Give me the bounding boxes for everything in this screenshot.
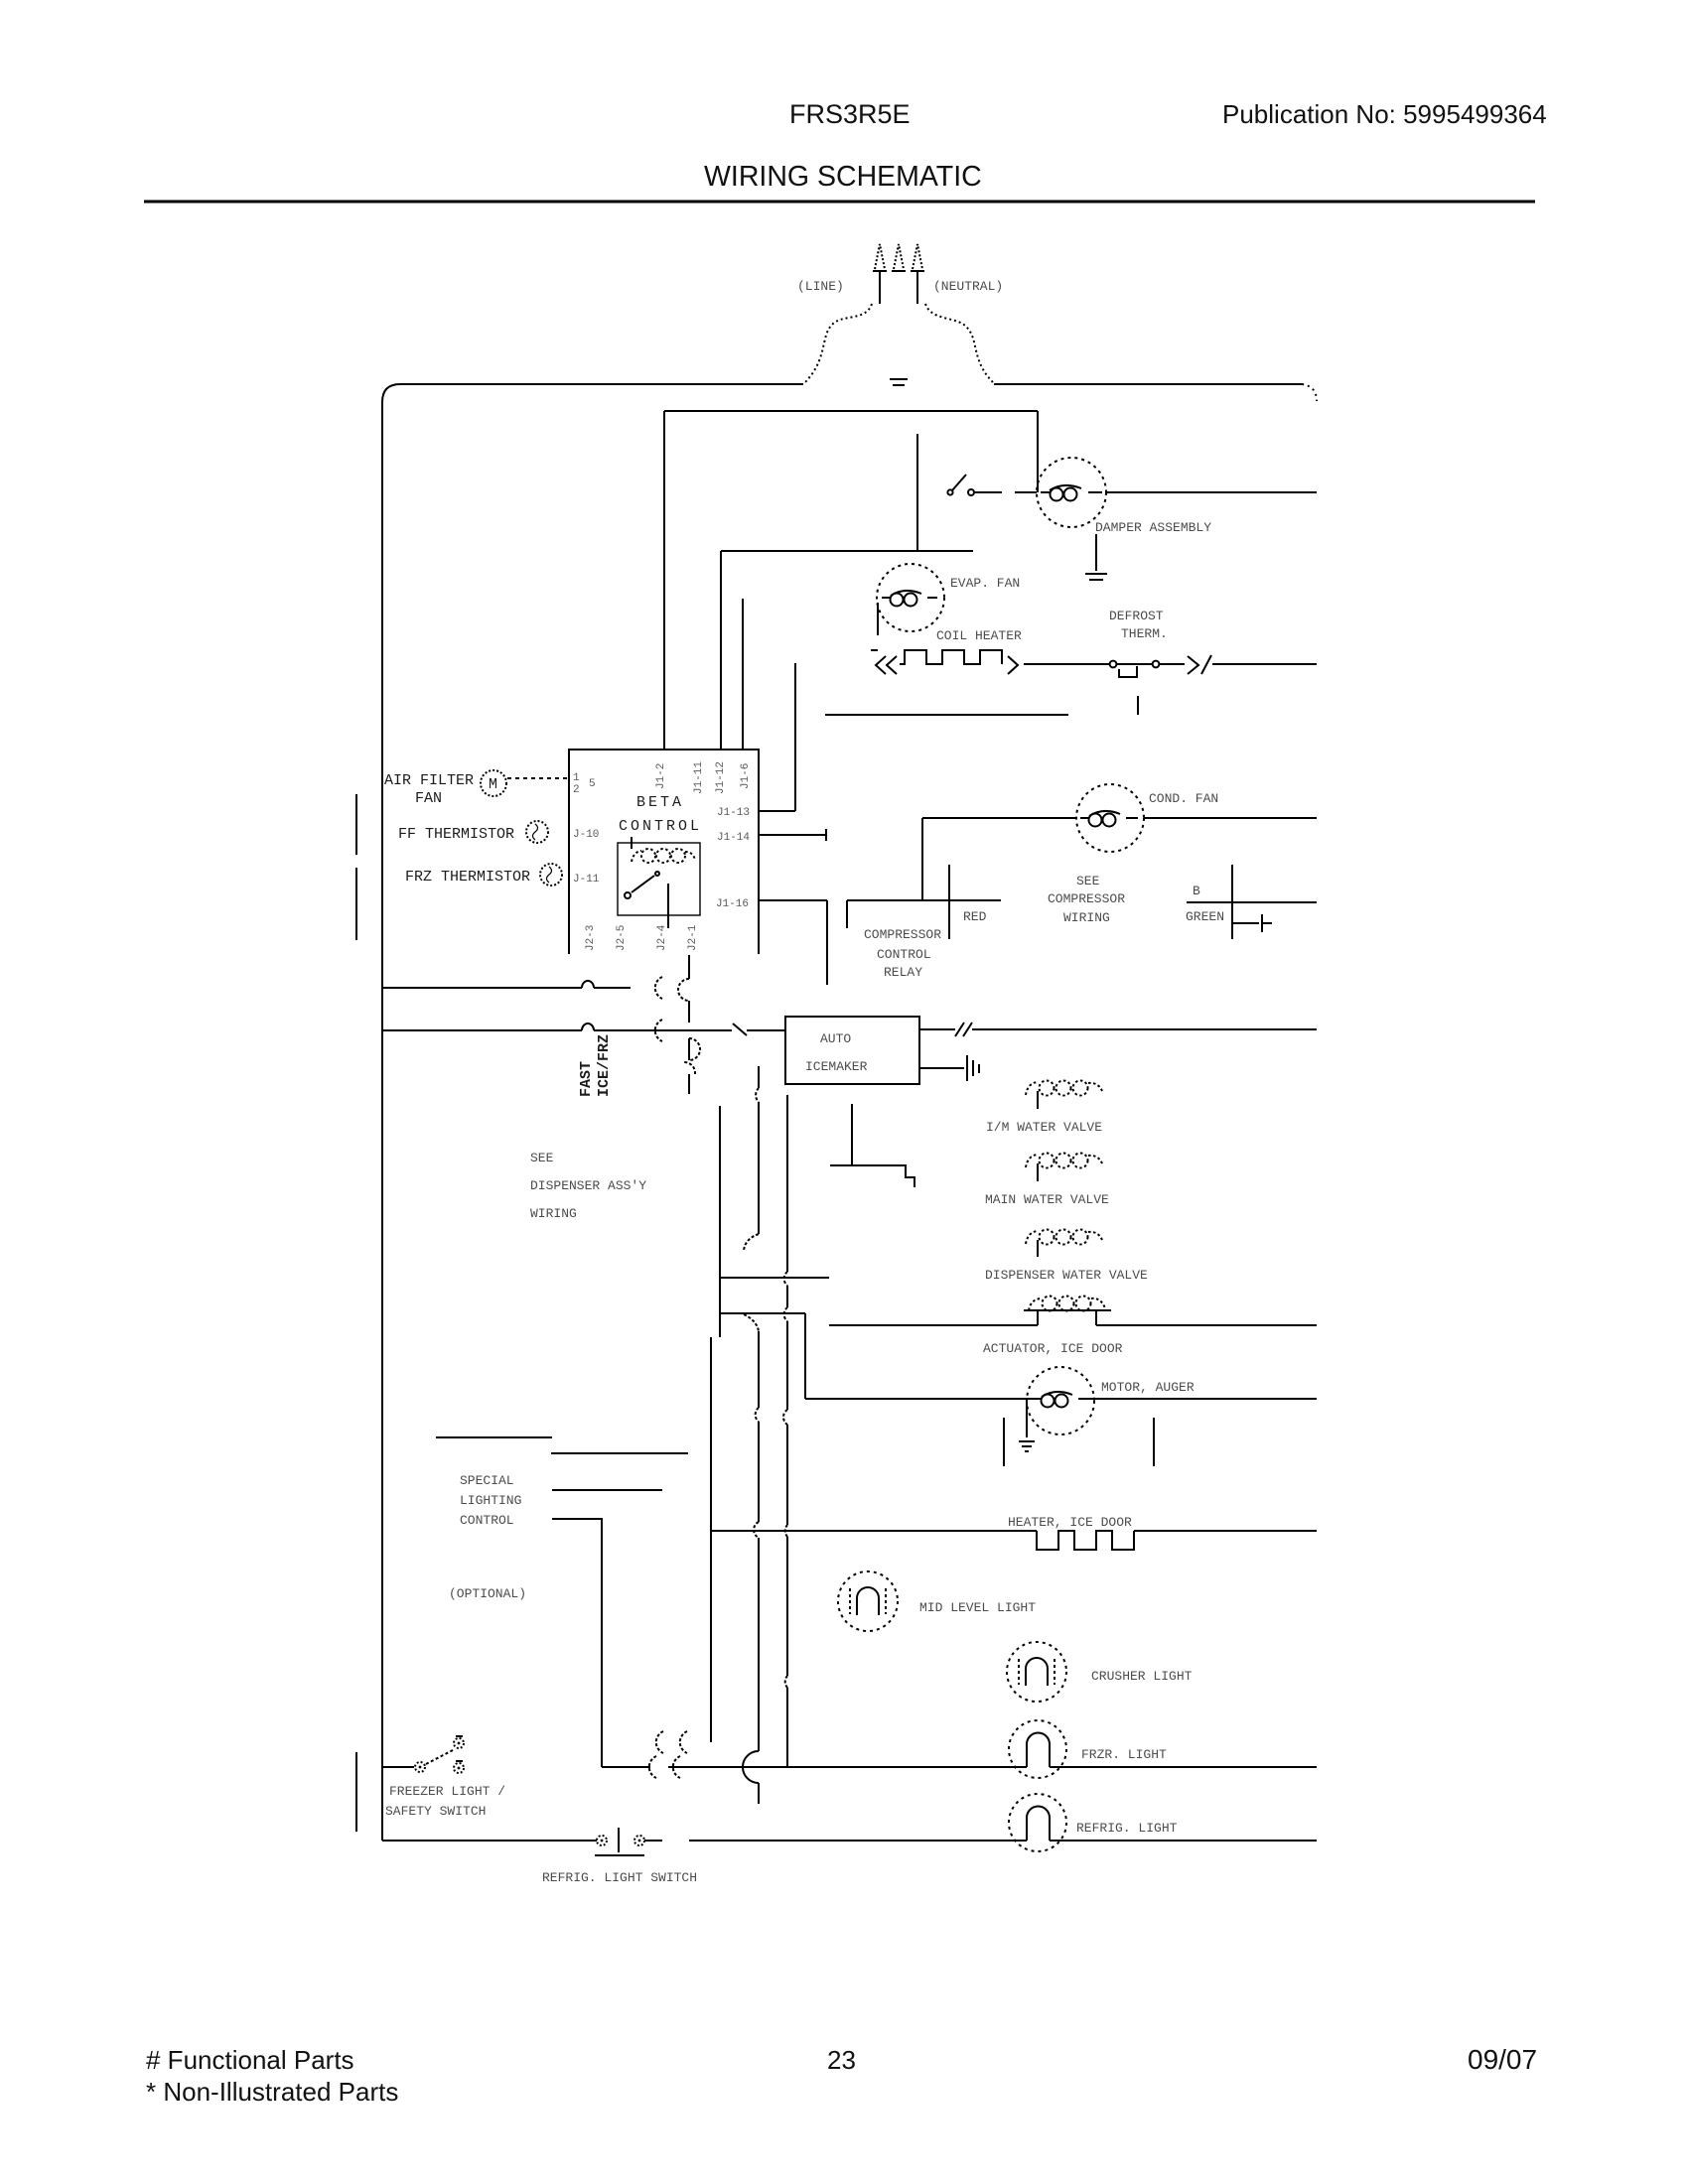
relay actuating line down to pin J2-4 [667,884,669,928]
svg-text:WIRING SCHEMATIC: WIRING SCHEMATIC [704,161,982,193]
defrost thermostat bracket [1119,666,1137,677]
svg-text:I/M WATER VALVE: I/M WATER VALVE [986,1120,1102,1135]
svg-text:MAIN WATER VALVE: MAIN WATER VALVE [985,1192,1109,1207]
svg-text:RED: RED [963,909,987,924]
svg-text:J-10: J-10 [573,829,599,841]
svg-text:J1-16: J1-16 [716,898,749,910]
svg-text:CONTROL: CONTROL [619,818,702,835]
mid level light filament [857,1587,879,1615]
dispenser water valve coil [1026,1230,1102,1245]
compressor stub right [1153,1418,1155,1466]
vertical C detour around frzr wire [743,1751,759,1783]
svg-text:DISPENSER WATER VALVE: DISPENSER WATER VALVE [985,1268,1148,1283]
refrig light bulb circle [1009,1794,1066,1851]
svg-text:5: 5 [589,778,596,790]
icemaker switch blade [733,1024,747,1035]
auto icemaker box [785,1017,919,1084]
svg-text:FRS3R5E: FRS3R5E [789,99,911,129]
coil heater connector chevron right [1008,656,1018,674]
crusher light bulb circle [1007,1642,1066,1702]
svg-text:23: 23 [827,2045,856,2075]
motor auger coil [1035,1398,1086,1400]
svg-text:ICEMAKER: ICEMAKER [805,1059,868,1074]
svg-text:2: 2 [573,784,580,796]
branch wire lower (to motor auger riser) [720,1312,805,1314]
red lead crossing [948,865,950,939]
title rule [144,201,1535,204]
refrig switch plunger [618,1828,620,1852]
svg-text:SAFETY SWITCH: SAFETY SWITCH [385,1804,486,1819]
wire down to beta control J1-11 [720,551,722,750]
wire left of cond fan [922,817,1076,819]
svg-text:Publication No: 5995499364: Publication No: 5995499364 [1222,99,1547,129]
svg-text:MOTOR, AUGER: MOTOR, AUGER [1101,1380,1195,1395]
border top-right segment [994,383,1302,385]
main water valve lead [1037,1163,1039,1181]
relay coil (dashed loops) [632,849,695,863]
svg-text:DISPENSER ASS'Y: DISPENSER ASS'Y [530,1178,646,1193]
lighting stub 2 [551,1452,688,1454]
svg-text:COMPRESSOR: COMPRESSOR [864,927,941,942]
wire heater to defrost thermostat [1024,663,1109,665]
svg-text:(LINE): (LINE) [797,279,844,294]
motor auger ground lead [1026,1401,1028,1437]
cond fan coil [1080,817,1138,819]
svg-text:GREEN: GREEN [1186,909,1224,924]
svg-text:DAMPER ASSEMBLY: DAMPER ASSEMBLY [1095,520,1211,535]
frzr light wire [602,1766,1317,1768]
svg-text:J2-5: J2-5 [616,925,628,951]
svg-text:CONTROL: CONTROL [877,947,931,962]
step wire [876,1165,914,1187]
wire from inner box down to beta control J1-2 [663,411,665,750]
evap fan lead [877,603,879,635]
vertical wire B (x716) lower [710,1337,712,1742]
svg-text:SEE: SEE [530,1151,554,1165]
wire beta J2-1 down [688,955,690,1094]
freezer switch lower terminal [454,1763,464,1773]
refrig light filament [1027,1807,1050,1842]
svg-text:1: 1 [573,772,580,784]
coil heater element [900,650,1002,664]
wire lead from right prong [916,271,918,304]
neutral wire into box [916,434,918,551]
wire damper to right edge [1106,491,1317,493]
cond fan motor circle [1076,784,1144,852]
svg-text:FREEZER LIGHT /: FREEZER LIGHT / [389,1784,505,1799]
connector arc pair on upper wire [655,977,662,999]
J1-14 stub end bar [825,829,827,841]
ground stub off green lead [1232,922,1259,924]
main water valve coil [1026,1154,1102,1168]
frzr light filament [1027,1733,1050,1768]
svg-text:COIL HEATER: COIL HEATER [936,628,1022,643]
wire from border through switch to icemaker (lower) [382,1029,785,1031]
FF thermistor sensor circle [526,821,548,843]
svg-text:CRUSHER LIGHT: CRUSHER LIGHT [1091,1669,1193,1684]
svg-text:REFRIG. LIGHT SWITCH: REFRIG. LIGHT SWITCH [542,1870,697,1885]
icemaker ground bars [967,1055,979,1081]
vertical wire C (x764) [758,1066,760,1804]
svg-text:ACTUATOR, ICE DOOR: ACTUATOR, ICE DOOR [983,1341,1123,1356]
svg-text:AUTO: AUTO [820,1031,851,1046]
connector arcs on J2-1 drop [678,979,700,1060]
svg-text:FAST: FAST [578,1061,595,1097]
lighting stub 3 [552,1489,662,1491]
defrost connector arrows [1188,655,1211,674]
relay coil stub [631,837,633,849]
drop into compressor control relay [846,900,848,928]
svg-text:J1-6: J1-6 [740,763,752,789]
svg-text:J1-14: J1-14 [717,832,750,844]
connector arcs on wire C [756,1088,759,1102]
wire defrost to right edge [1160,663,1185,665]
freezer switch left terminal [415,1762,425,1772]
plug body outline right (dashed) [925,304,994,383]
lighting stub 4 with drop [552,1519,602,1767]
evap fan coil [882,597,937,599]
svg-text:WIRING: WIRING [1063,910,1110,925]
wire after switch [644,1840,1317,1842]
I/M water valve lead [1037,1091,1039,1109]
heater wire left [711,1530,1037,1532]
actuator coil loops [1029,1297,1105,1311]
svg-text:B: B [1193,884,1200,898]
I/M water valve coil [1026,1081,1102,1096]
wire from y555 node down to beta control [742,599,744,750]
svg-text:J1-13: J1-13 [717,807,750,819]
connector hop on lower wire [582,1024,594,1030]
mid level light bulb circle [838,1571,898,1631]
svg-text:AIR FILTER: AIR FILTER [384,772,474,789]
motor auger right wire [1083,1398,1317,1400]
svg-text:EVAP. FAN: EVAP. FAN [950,576,1020,591]
hop arcs on wire D [783,1272,787,1688]
icemaker ground wire [919,1067,964,1069]
bottom wire border to refrig switch [382,1840,597,1842]
damper switch [947,489,952,494]
svg-text:J2-3: J2-3 [585,925,597,951]
wire from border to beta J2 (upper) [382,987,631,989]
coil heater connector chevrons left [871,650,897,674]
evap fan motor circle [877,564,944,631]
wire from inner box down to damper switch row [1037,411,1039,492]
drop from J1-16 wire [826,900,828,985]
freezer switch upper terminal [454,1738,464,1748]
air filter fan motor M circle [481,770,506,796]
refrig switch right terminal [634,1836,644,1845]
wire J1-13 to riser [759,810,795,812]
svg-text:CONTROL: CONTROL [460,1513,514,1528]
vertical wire D (x793) [786,1095,788,1767]
wire switch to damper coil [975,491,1037,493]
svg-text:FRZR. LIGHT: FRZR. LIGHT [1081,1747,1167,1762]
relay box inside beta control [618,843,700,915]
wire cond fan to right edge [1144,817,1317,819]
connector arcs at bottom of wire B [656,1731,687,1753]
connector hop on upper wire [582,981,594,988]
wire break slashes [955,1023,972,1036]
vertical wire A (x725) [719,1106,721,1337]
beta control box outline (open bottom) [569,750,759,954]
svg-text:FF THERMISTOR: FF THERMISTOR [398,826,514,843]
plug body outline left (dashed) [804,304,872,383]
svg-text:J2-4: J2-4 [656,924,668,951]
left margin tick upper [355,794,357,855]
svg-text:SEE: SEE [1076,874,1100,888]
svg-text:DEFROST: DEFROST [1109,609,1164,623]
riser from defrost row down to J1-13 [794,663,796,811]
drop from cond fan wire to compressor wire [921,818,923,900]
motor auger left wire [805,1398,1035,1400]
damper coil [1041,491,1102,493]
svg-text:ICE/FRZ: ICE/FRZ [596,1034,613,1097]
svg-text:FAN: FAN [415,790,442,807]
damper ground bars [1085,573,1107,575]
connector arcs on frzr wire [649,1756,680,1778]
green wire to right edge [1187,901,1317,903]
actuator left wire [829,1324,1038,1326]
svg-text:(OPTIONAL): (OPTIONAL) [449,1586,526,1601]
border top-right dotted corner [1302,384,1317,401]
svg-text:SPECIAL: SPECIAL [460,1473,514,1488]
svg-text:J-11: J-11 [573,874,600,886]
actuator right wire [1096,1324,1317,1326]
relay switch blade [625,892,631,898]
green lead vertical [1231,865,1233,939]
icemaker output wire with break [919,1028,1317,1030]
branch wire upper (to stub) [720,1277,829,1279]
dashed wire M to beta box [507,777,569,779]
wire below defrost row [825,714,1068,716]
border top-left segment and left edge [382,384,803,1841]
actuator through line [1024,1309,1111,1311]
svg-text:FRZ THERMISTOR: FRZ THERMISTOR [405,869,530,886]
defrost thermostat terminals [1110,661,1117,668]
wire border to freezer switch [382,1766,414,1768]
svg-text:THERM.: THERM. [1121,626,1168,641]
damper assembly motor circle [1037,458,1106,527]
damper ground lead [1095,534,1097,571]
svg-text:MID LEVEL LIGHT: MID LEVEL LIGHT [919,1600,1036,1615]
chassis ground bars below middle prong [890,378,908,380]
compressor relay wire [847,899,1001,901]
svg-text:M: M [489,776,497,793]
svg-text:09/07: 09/07 [1468,2044,1537,2075]
plug prong middle (ground) [894,244,904,269]
left margin tick middle [355,868,357,940]
inner box top edge [664,410,1038,412]
motor auger ground bars [1019,1441,1035,1451]
icemaker fill tube stub [851,1104,853,1165]
short stub below defrost bracket [1137,696,1139,715]
plug prong right (NEUTRAL) [913,244,922,269]
wire across top of beta area [721,550,973,552]
wire lead from left prong [879,271,881,304]
svg-text:RELAY: RELAY [884,965,922,980]
svg-text:COMPRESSOR: COMPRESSOR [1048,891,1125,906]
dispenser water valve lead [1037,1240,1039,1257]
svg-text:J2-1: J2-1 [687,924,699,951]
crusher light filament [1026,1658,1048,1686]
svg-text:* Non-Illustrated Parts: * Non-Illustrated Parts [146,2077,398,2107]
svg-text:J1-11: J1-11 [693,761,705,794]
left margin tick lower [355,1752,357,1832]
svg-text:# Functional Parts: # Functional Parts [146,2045,354,2075]
refrig switch left terminal [597,1836,607,1845]
heater element [1037,1531,1134,1550]
frzr light bulb circle [1009,1720,1066,1778]
svg-text:BETA: BETA [636,794,684,811]
motor auger riser [804,1313,806,1399]
svg-text:J1-12: J1-12 [715,761,727,794]
plug prong left (LINE) [875,244,885,269]
connector arc on lower wire [655,1020,662,1041]
svg-text:LIGHTING: LIGHTING [460,1493,521,1508]
svg-text:(NEUTRAL): (NEUTRAL) [933,279,1003,294]
FRZ thermistor sensor circle [540,864,562,886]
wire J1-14 stub [759,834,825,836]
lighting stub 1 [436,1436,552,1438]
freezer switch blade [426,1750,453,1764]
motor auger circle [1027,1367,1094,1434]
svg-text:J1-2: J1-2 [655,763,667,789]
actuator steps [1038,1310,1096,1325]
svg-text:REFRIG. LIGHT: REFRIG. LIGHT [1076,1821,1178,1836]
svg-text:WIRING: WIRING [530,1206,577,1221]
compressor stub left [1003,1418,1005,1466]
wire J1-16 [759,899,827,901]
svg-text:HEATER, ICE DOOR: HEATER, ICE DOOR [1008,1515,1132,1530]
heater wire right [1134,1530,1317,1532]
svg-text:COND. FAN: COND. FAN [1149,791,1218,806]
terminal bar [830,1164,876,1166]
